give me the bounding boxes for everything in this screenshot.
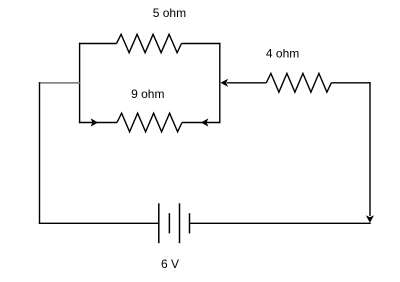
wire: gray connector from outer loop to box left: [39, 82, 81, 84]
resistor 4 ohm: [266, 73, 331, 92]
wire: parallel box right edge: [219, 43, 221, 123]
wire: top branch left lead: [79, 43, 117, 45]
resistor 5 ohm: [117, 34, 182, 52]
battery B1 plate: long line 2: [179, 203, 181, 243]
wire: outer right vertical: [369, 82, 371, 216]
svg-text:9 ohm: 9 ohm: [131, 87, 164, 101]
wire: 4 ohm right lead: [331, 82, 370, 84]
wire: parallel box left edge: [79, 43, 81, 123]
arrowhead: current down into bottom wire: [366, 215, 374, 223]
wire: bottom branch right lead: [182, 122, 221, 124]
arrowhead: current into 9 ohm from left: [91, 118, 99, 126]
battery B1 plate: short line 1: [168, 213, 170, 233]
battery B1 plate: short line 2: [189, 213, 191, 233]
wire: 4 ohm left lead: [227, 82, 266, 84]
arrowhead: current into 9 ohm from right: [201, 118, 209, 126]
wire: bottom right segment: [190, 222, 371, 224]
wire: top branch right lead: [182, 43, 221, 45]
wire: bottom left segment: [39, 222, 159, 224]
arrowhead: current into parallel box right edge: [221, 79, 229, 87]
wire: bottom branch left lead: [79, 122, 117, 124]
svg-text:5 ohm: 5 ohm: [153, 6, 186, 20]
resistor 9 ohm: [117, 113, 182, 132]
svg-text:4 ohm: 4 ohm: [266, 47, 299, 61]
wire: outer left vertical: [39, 82, 41, 224]
battery B1 plate: long line 1: [158, 203, 160, 243]
svg-text:6 V: 6 V: [161, 257, 179, 271]
